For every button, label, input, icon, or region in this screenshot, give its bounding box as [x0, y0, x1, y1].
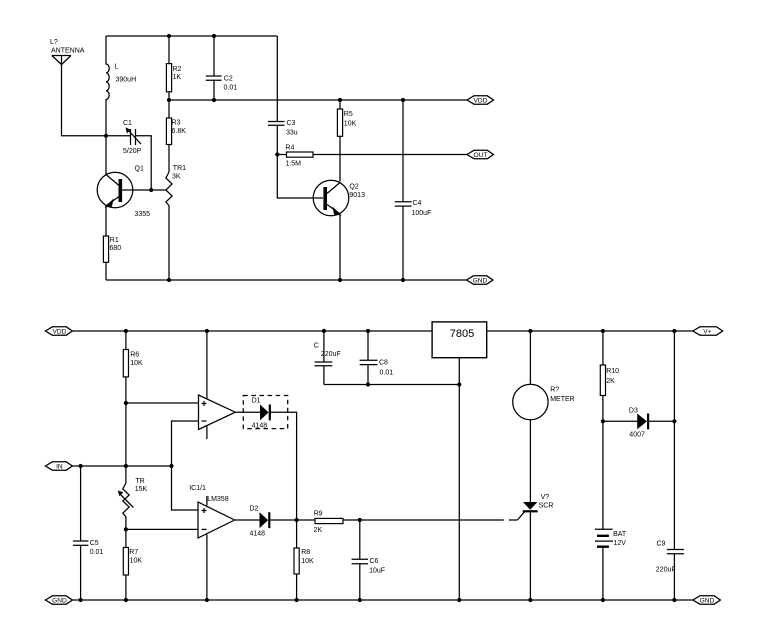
junction opamp V+ — [205, 329, 209, 333]
junction C8 bottom — [366, 382, 370, 386]
svg-text:100uF: 100uF — [412, 210, 432, 217]
capacitor C5 0.01 — [73, 466, 104, 600]
svg-text:9013: 9013 — [349, 192, 365, 199]
svg-text:6.8K: 6.8K — [172, 128, 187, 135]
resistor R6 10K — [123, 331, 143, 403]
svg-text:Q1: Q1 — [135, 166, 144, 173]
antenna L? ANTENNA — [50, 39, 85, 65]
svg-text:1K: 1K — [173, 74, 182, 81]
junction C8 top — [366, 329, 370, 333]
svg-text:C1: C1 — [123, 120, 132, 127]
resistor R3 6.8K — [166, 100, 186, 172]
wire D1 to R8 node — [271, 412, 297, 520]
port GND bottom-right — [693, 596, 721, 605]
junction C9 top — [672, 329, 676, 333]
wire R6 bottom to opamp1 plus — [126, 402, 199, 404]
svg-text:D3: D3 — [629, 407, 638, 414]
junction R2 top — [167, 34, 171, 38]
wire top rail — [106, 35, 277, 37]
svg-text:2K: 2K — [314, 527, 323, 534]
resistor R7 10K — [123, 529, 142, 600]
resistor R9 2K — [314, 511, 360, 535]
junction battery bottom — [601, 598, 605, 602]
diode D3 4007 — [629, 407, 648, 438]
wire antenna to node A — [62, 56, 107, 136]
junction Q2 emitter bottom — [338, 278, 342, 282]
svg-text:4007: 4007 — [629, 432, 645, 439]
svg-text:GND: GND — [473, 278, 488, 285]
junction C4 top — [401, 98, 405, 102]
svg-text:0.01: 0.01 — [90, 549, 104, 556]
junction D3 anode — [601, 419, 605, 423]
svg-text:R7: R7 — [129, 549, 138, 556]
capacitor C9 220uF — [656, 331, 684, 600]
inductor L 390uH — [106, 36, 136, 136]
svg-text:SCR: SCR — [539, 503, 554, 510]
svg-text:12V: 12V — [614, 540, 627, 547]
wire D3 anode — [603, 420, 637, 422]
capacitor C2 0.01 — [206, 36, 237, 100]
capacitor C6 10uF — [352, 520, 385, 600]
svg-text:IN: IN — [56, 464, 63, 471]
wire V+ rail — [487, 330, 693, 332]
junction C9 bottom — [672, 598, 676, 602]
port IN — [45, 462, 72, 471]
wire VDD rail y=100 — [169, 99, 467, 101]
svg-text:C2: C2 — [224, 76, 233, 83]
junction TR bottom opamp2 minus — [124, 527, 128, 531]
capacitor C1 5/20P variable — [106, 120, 142, 155]
wire R5 to Q2 collector — [339, 136, 341, 181]
resistor R2 1K — [166, 36, 181, 100]
svg-text:C8: C8 — [379, 360, 388, 367]
svg-text:METER: METER — [550, 396, 575, 403]
thyristor V? SCR — [523, 494, 554, 600]
junction R5 top — [338, 98, 342, 102]
junction 7805 gnd — [457, 382, 461, 386]
junction R9 C6 node — [358, 518, 362, 522]
op-amp IC1/1 LM358 second — [189, 485, 234, 600]
svg-text:10K: 10K — [344, 120, 357, 127]
diode D2 4148 — [250, 506, 270, 538]
diode D1 4148 in dashed box — [243, 396, 287, 430]
svg-text:7805: 7805 — [450, 328, 474, 340]
svg-text:10K: 10K — [130, 558, 143, 565]
wire R10 to battery — [602, 396, 604, 530]
resistor R5 10K — [337, 100, 356, 136]
junction meter top — [528, 329, 532, 333]
svg-text:R?: R? — [550, 387, 559, 394]
junction Q1 base node — [149, 188, 153, 192]
svg-text:5/20P: 5/20P — [123, 148, 142, 155]
junction C5 top — [79, 464, 83, 468]
svg-text:GND: GND — [52, 598, 67, 605]
node A junction — [104, 134, 108, 138]
wire D2 to R9 — [270, 519, 315, 521]
wire SCR gate — [360, 512, 525, 520]
svg-text:C4: C4 — [413, 200, 422, 207]
junction C2 top — [212, 34, 216, 38]
svg-text:0.01: 0.01 — [380, 370, 394, 377]
svg-text:C3: C3 — [287, 120, 296, 127]
svg-text:Q2: Q2 — [349, 184, 358, 191]
wire meter to SCR — [529, 420, 531, 502]
junction opamp1 plus node — [124, 401, 128, 405]
junction diode outputs R8 — [295, 518, 299, 522]
junction IN TR node — [124, 464, 128, 468]
svg-text:R8: R8 — [301, 549, 310, 556]
svg-text:33u: 33u — [286, 129, 298, 136]
junction 7805 gnd bottom — [457, 598, 461, 602]
port V+ — [693, 327, 723, 336]
svg-text:OUT: OUT — [474, 152, 488, 159]
resistor R10 2K — [600, 331, 619, 396]
wire D3 cathode — [649, 420, 674, 422]
svg-text:VDD: VDD — [52, 329, 66, 336]
junction R2 bottom — [167, 98, 171, 102]
wire GND rail top circuit — [106, 279, 466, 281]
junction C2 bottom — [212, 98, 216, 102]
svg-text:D1: D1 — [252, 397, 261, 404]
trimmer TR 15K — [118, 466, 148, 529]
capacitor C3 33u — [268, 120, 298, 155]
svg-text:C5: C5 — [90, 540, 99, 547]
junction C3 R4 node — [275, 152, 279, 156]
wire GND rail bottom — [72, 599, 693, 601]
wire C3 to Q2 base — [277, 155, 323, 199]
port GND bottom-left — [45, 596, 72, 605]
wire TR1 wiper to Q1 base — [122, 189, 166, 191]
svg-text:2K: 2K — [606, 378, 615, 385]
junction TR1 bottom — [167, 278, 171, 282]
port OUT — [467, 150, 494, 159]
svg-text:R4: R4 — [285, 145, 294, 152]
svg-text:IC1/1: IC1/1 — [189, 485, 206, 492]
capacitor C8 0.01 — [360, 331, 394, 385]
svg-text:4148: 4148 — [250, 531, 266, 538]
svg-text:C6: C6 — [370, 558, 379, 565]
port GND top — [466, 276, 493, 285]
svg-text:V+: V+ — [703, 329, 711, 336]
svg-text:1.5M: 1.5M — [285, 161, 301, 168]
svg-text:ANTENNA: ANTENNA — [51, 48, 85, 55]
svg-text:4148: 4148 — [252, 423, 268, 430]
resistor R1 680 — [103, 236, 121, 280]
junction IN opamp node — [169, 464, 173, 468]
svg-text:VDD: VDD — [474, 98, 488, 105]
resistor R4 1.5M — [277, 145, 467, 168]
battery BAT 12V — [595, 529, 627, 600]
wire R6 node down to IN rail — [125, 403, 127, 466]
junction R10 top — [601, 329, 605, 333]
svg-text:R9: R9 — [314, 511, 323, 518]
svg-text:220uF: 220uF — [656, 567, 676, 574]
wire VDD rail bottom — [72, 330, 432, 332]
transistor Q2 9013 — [313, 180, 365, 280]
svg-text:TR: TR — [135, 478, 144, 485]
svg-text:C9: C9 — [657, 541, 666, 548]
svg-text:V?: V? — [541, 494, 550, 501]
svg-text:L?: L? — [50, 39, 58, 46]
wire opamp1 out — [235, 411, 260, 413]
junction opamp V- bottom — [205, 598, 209, 602]
svg-text:LM358: LM358 — [207, 496, 229, 503]
svg-text:GND: GND — [700, 598, 715, 605]
svg-text:220uF: 220uF — [321, 351, 341, 358]
svg-text:R2: R2 — [173, 66, 182, 73]
svg-text:3K: 3K — [172, 173, 181, 180]
junction C6 bottom — [358, 598, 362, 602]
wire opamp1 minus — [172, 421, 199, 510]
transistor Q1 3355 — [97, 136, 150, 236]
junction SCR cathode bottom — [528, 598, 532, 602]
regulator U 7805 — [432, 322, 487, 358]
junction R8 bottom — [295, 598, 299, 602]
capacitor C4 100uF — [395, 100, 432, 280]
svg-text:10K: 10K — [130, 360, 143, 367]
svg-text:TR1: TR1 — [173, 165, 186, 172]
svg-text:D2: D2 — [250, 506, 259, 513]
junction C4 bottom — [401, 278, 405, 282]
svg-text:680: 680 — [110, 245, 122, 252]
wire TR node to opamp2 minus — [126, 528, 198, 530]
svg-text:10uF: 10uF — [369, 568, 385, 575]
wire top rail to C3 — [276, 36, 278, 122]
meter R? METER — [513, 331, 575, 420]
svg-text:R3: R3 — [172, 120, 181, 127]
svg-text:R10: R10 — [606, 368, 619, 375]
port VDD top — [467, 96, 494, 105]
wire C C8 ground line — [324, 384, 459, 386]
op-amp IC1/1 LM358 first — [199, 331, 236, 439]
wire 7805 gnd pin — [458, 358, 460, 600]
resistor R8 10K — [294, 520, 314, 600]
junction R7 bottom — [124, 598, 128, 602]
svg-text:C: C — [314, 342, 319, 349]
trimmer TR1 3K — [166, 165, 186, 280]
svg-text:BAT: BAT — [613, 531, 627, 538]
junction R6 top — [124, 329, 128, 333]
wire IN rail — [72, 465, 171, 467]
junction C5 bottom — [79, 598, 83, 602]
svg-text:0.01: 0.01 — [224, 84, 238, 91]
svg-text:L: L — [115, 64, 119, 71]
wire opamp2 out — [235, 519, 260, 521]
port VDD bottom-left — [45, 327, 72, 336]
junction D3 cathode C9 — [672, 419, 676, 423]
junction C top — [322, 329, 326, 333]
svg-text:10K: 10K — [301, 558, 314, 565]
svg-text:3355: 3355 — [135, 211, 151, 218]
svg-text:15K: 15K — [135, 486, 148, 493]
svg-text:R5: R5 — [344, 111, 353, 118]
svg-text:R6: R6 — [130, 352, 139, 359]
wire C1 to Q1 base — [136, 136, 152, 190]
svg-text:390uH: 390uH — [116, 77, 137, 84]
svg-text:R1: R1 — [110, 237, 119, 244]
capacitor C 220uF — [314, 331, 341, 385]
